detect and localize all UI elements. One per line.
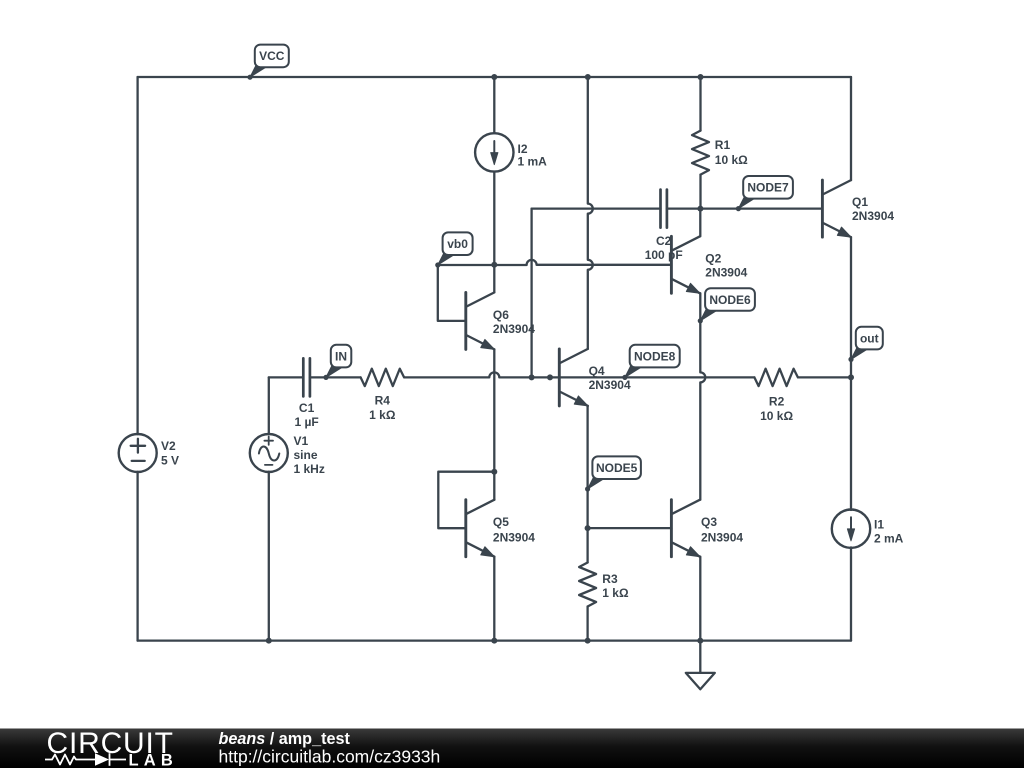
svg-text:2 mA: 2 mA — [874, 532, 904, 546]
wire Q6 collector to vb0 node — [493, 265, 495, 293]
wire middle vertical x=587.8 (VCC to Q4 collector, hops) — [588, 77, 593, 349]
net flag vb0 — [438, 254, 456, 266]
wire Q2 collector to node7 row — [699, 209, 701, 237]
junction dot Q5 tie — [491, 469, 497, 475]
svg-text:http://circuitlab.com/cz3933h: http://circuitlab.com/cz3933h — [219, 746, 441, 766]
net flag NODE8 — [625, 366, 643, 378]
svg-text:LAB: LAB — [129, 752, 179, 768]
voltage source V2 — [119, 434, 157, 472]
net flag NODE6 — [700, 309, 718, 321]
wire Q2 emitter / NODE6 down to Q3 collector (hop over main row) — [700, 293, 705, 499]
svg-text:1 kΩ: 1 kΩ — [602, 586, 629, 600]
svg-text:2N3904: 2N3904 — [493, 322, 535, 336]
svg-text:5 V: 5 V — [161, 454, 179, 468]
net flag VCC — [250, 66, 268, 78]
svg-text:C1: C1 — [299, 401, 315, 415]
wire Q3 base stub — [588, 527, 672, 529]
capacitor C2 — [661, 190, 667, 228]
junction dot vb0/I2 — [491, 262, 497, 268]
svg-text:V2: V2 — [161, 439, 176, 453]
svg-text:1 kHz: 1 kHz — [294, 462, 325, 476]
svg-text:NODE6: NODE6 — [709, 293, 751, 307]
ground — [699, 641, 701, 673]
wire Q6 base loop — [438, 265, 466, 321]
svg-text:vb0: vb0 — [447, 237, 468, 251]
CircuitLab logo resistor-diode doodle — [45, 755, 126, 765]
junction dots bottom rail — [266, 638, 272, 644]
svg-text:R4: R4 — [375, 394, 391, 408]
resistor R3 — [579, 563, 596, 607]
svg-text:2N3904: 2N3904 — [852, 209, 894, 223]
transistor Q1 — [821, 180, 824, 237]
current source I1 — [832, 510, 870, 548]
current source I2 — [475, 133, 513, 171]
svg-text:VCC: VCC — [259, 49, 285, 63]
svg-text:Q4: Q4 — [589, 364, 605, 378]
wire right rail lower (Q1 emitter / out / R2 node / I1) — [850, 237, 852, 640]
svg-text:1 kΩ: 1 kΩ — [369, 408, 396, 422]
svg-text:2N3904: 2N3904 — [493, 530, 535, 544]
svg-text:C2: C2 — [656, 234, 672, 248]
voltage source V1 — [250, 434, 288, 472]
footer bar — [0, 729, 1024, 768]
svg-text:1 µF: 1 µF — [294, 415, 318, 429]
svg-text:sine: sine — [294, 448, 318, 462]
wire Q5 emitter to ground rail — [493, 557, 495, 641]
wire Q6 emitter down to Q5 collector — [493, 349, 495, 499]
transistor Q6 — [464, 292, 467, 349]
svg-text:Q5: Q5 — [493, 515, 509, 529]
net flag out — [851, 348, 869, 360]
wire main input row y=377 — [269, 372, 851, 377]
net flag NODE7 — [738, 197, 756, 209]
svg-text:100 pF: 100 pF — [645, 248, 683, 262]
resistor R1 — [692, 131, 709, 175]
net flag NODE5 — [588, 478, 606, 490]
wire R1 leads x=700.5 — [699, 77, 701, 209]
svg-text:2N3904: 2N3904 — [589, 378, 631, 392]
wire Q4 emitter / NODE5 / R3 top — [586, 406, 588, 563]
svg-text:R2: R2 — [769, 395, 785, 409]
wire left rail (V2 branch) — [136, 77, 138, 641]
wire bottom rail — [138, 639, 851, 641]
wire row y=208.6 (C2 to Q1 base) — [532, 207, 823, 209]
svg-text:beans / amp_test: beans / amp_test — [219, 730, 351, 748]
svg-text:R3: R3 — [602, 572, 618, 586]
svg-text:I1: I1 — [874, 518, 884, 532]
wire C2 loop vertical x=531.6 — [530, 209, 532, 378]
svg-text:IN: IN — [335, 349, 347, 363]
capacitor C1 — [303, 358, 310, 396]
transistor Q5 — [464, 500, 467, 557]
svg-text:1 mA: 1 mA — [518, 154, 548, 168]
resistor R2 — [754, 369, 798, 386]
wire vb0 row y=264.8 — [438, 260, 672, 265]
junction dot Q3 base — [585, 525, 591, 531]
svg-text:2N3904: 2N3904 — [701, 530, 743, 544]
net flag IN — [326, 366, 344, 378]
junction dots top rail — [491, 74, 497, 80]
svg-text:2N3904: 2N3904 — [705, 266, 747, 280]
transistor Q2 — [670, 236, 673, 293]
svg-text:V1: V1 — [294, 434, 309, 448]
svg-text:Q2: Q2 — [705, 251, 721, 265]
svg-text:NODE5: NODE5 — [596, 461, 638, 475]
wire Q5 base-collector tie loop — [438, 472, 494, 529]
junction dot R1/C2/Q1-base/Q2-collector node — [697, 206, 703, 212]
resistor R4 — [361, 369, 405, 386]
wire R3 bottom lead — [586, 607, 588, 641]
svg-text:NODE7: NODE7 — [747, 181, 789, 195]
wire V1 branch — [268, 377, 270, 640]
transistor Q3 — [670, 500, 673, 557]
svg-text:10 kΩ: 10 kΩ — [715, 153, 748, 167]
wire right rail upper (VCC to Q1 collector) — [850, 77, 852, 180]
svg-text:out: out — [860, 331, 879, 345]
svg-text:NODE8: NODE8 — [634, 349, 676, 363]
svg-text:10 kΩ: 10 kΩ — [760, 409, 793, 423]
svg-text:Q1: Q1 — [852, 195, 868, 209]
wire I2 branch x=494.3 — [493, 77, 495, 265]
junction dots main row — [529, 374, 535, 380]
transistor Q4 — [558, 349, 561, 406]
svg-text:Q6: Q6 — [493, 308, 509, 322]
wire Q3 emitter to ground rail — [699, 557, 701, 641]
wire VCC top rail — [138, 76, 851, 78]
svg-text:Q3: Q3 — [701, 515, 717, 529]
svg-text:R1: R1 — [715, 138, 731, 152]
